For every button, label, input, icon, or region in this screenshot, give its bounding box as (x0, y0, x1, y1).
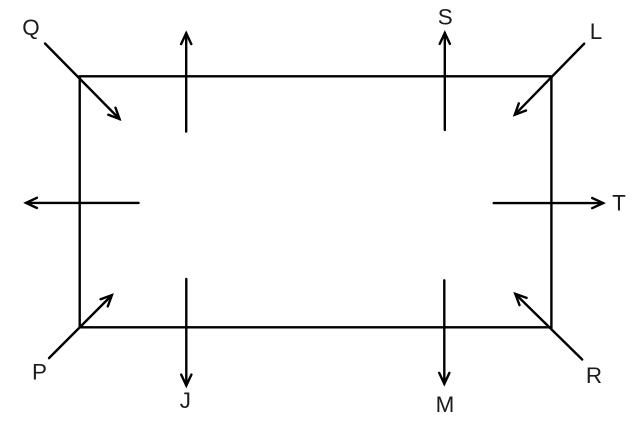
force arrow T (right through right edge) (494, 198, 603, 208)
svg-text:P: P (32, 360, 47, 385)
svg-text:Q: Q (22, 15, 39, 40)
svg-text:L: L (590, 19, 602, 44)
force arrow S (up through top edge, right) (440, 33, 450, 130)
svg-text:S: S (438, 4, 453, 29)
force arrow up through top edge (left, unlabeled) (181, 33, 191, 131)
svg-text:T: T (612, 190, 626, 215)
force arrow P (diagonal into bottom-left corner) (49, 295, 112, 358)
force arrow M (down through bottom edge, right) (439, 280, 449, 384)
svg-text:J: J (180, 388, 191, 413)
svg-text:M: M (436, 392, 455, 417)
force arrow R (diagonal into bottom-right corner) (515, 294, 582, 360)
svg-text:R: R (586, 363, 602, 388)
rectangle body (80, 76, 552, 327)
force arrow L (diagonal into top-right corner) (515, 44, 584, 115)
force arrow left through left edge (unlabeled) (26, 198, 139, 208)
force arrow J (down through bottom edge, left) (181, 279, 191, 386)
force arrow Q (diagonal into top-left corner) (45, 44, 120, 120)
